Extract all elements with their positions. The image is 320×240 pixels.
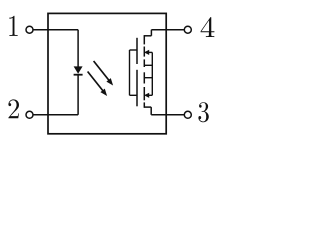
pin 1 terminal circle [26,26,33,33]
pin 4 label [201,17,215,37]
common source riser [151,52,153,95]
pin 3 terminal circle [184,111,191,118]
wire pin3 [151,114,184,116]
Q1 body arrow stub [148,51,153,53]
Q1 channel segment source [143,59,145,67]
pin 2 terminal circle [26,111,33,118]
Q2 channel segment source [143,72,145,83]
light arrow upper shaft [94,61,110,81]
Q1 source stub [144,64,152,66]
LED D1 triangle [74,66,83,73]
light arrow lower shaft [88,72,104,92]
wire LED anode vertical [77,30,79,67]
wire pin4 [151,29,184,31]
Q1 channel segment middle [143,47,145,57]
Q2 gate bar [136,70,138,107]
wire pin1 to LED anode [33,29,78,31]
Q2 drain riser to pin3 [150,107,152,115]
pin 3 label [198,102,208,122]
pin 4 terminal circle [184,26,191,33]
package outline [48,13,166,133]
Q1 drain stub [144,35,151,37]
Q2 body arrow stub [148,94,153,96]
LED D1 cathode bar [74,74,83,76]
Q2 source stub [144,77,152,79]
light arrow lower head [100,89,107,96]
Q1 drain riser to pin4 [150,30,152,36]
gate bus wire [129,50,131,95]
Q1 channel segment drain [143,35,145,44]
pin 2 label [8,99,19,118]
Q1 body arrow head [144,50,149,55]
Q1 gate lead wire [130,49,137,51]
Q2 channel segment drain [143,102,145,107]
Q2 channel segment middle [143,87,145,100]
wire LED cathode vertical [77,76,79,115]
pin 1 label [9,16,17,36]
Q1 gate bar [136,38,138,64]
wire pin2 to LED cathode [33,114,78,116]
light arrow upper head [106,78,113,85]
Q2 gate lead wire [130,94,137,96]
Q2 drain stub [144,106,151,108]
Q2 body arrow head [144,93,149,98]
